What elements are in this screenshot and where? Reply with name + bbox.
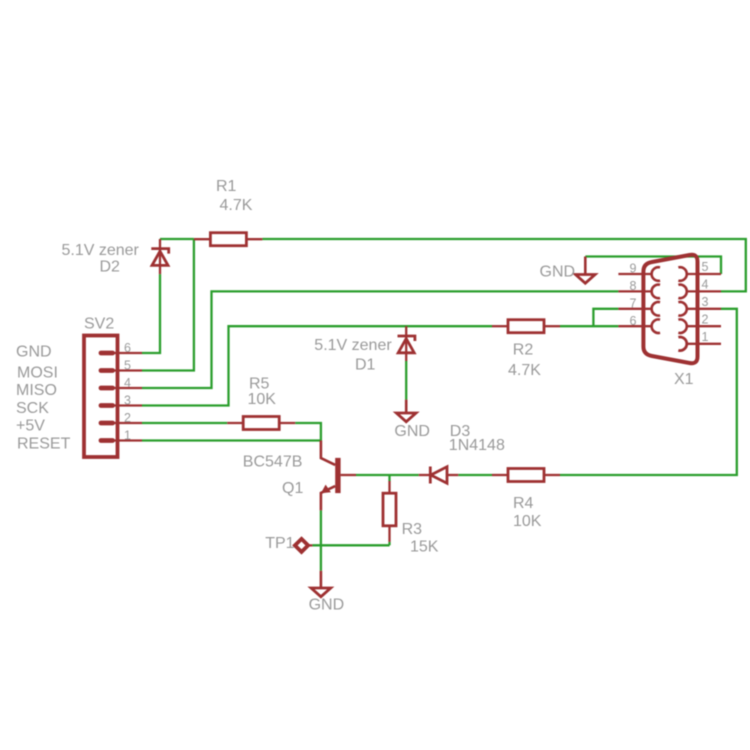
wire R3 top stub: [388, 475, 390, 481]
X1 pin 3: [678, 302, 721, 316]
diode D2 (5.1V zener): [151, 239, 168, 274]
svg-text:GND: GND: [394, 423, 430, 440]
svg-text:1N4148: 1N4148: [449, 437, 505, 454]
wire +5V: SV2 pin 2 to R5: [142, 422, 227, 424]
X1 pin 1: [678, 337, 721, 351]
wire R2 right to X1 pin 6: [560, 325, 618, 327]
svg-text:15K: 15K: [410, 539, 439, 556]
wire RESET: SV2 pin 1 to Q1 collector node: [142, 439, 321, 441]
wire D1 anode to GND: [405, 361, 407, 400]
svg-text:4: 4: [124, 376, 131, 390]
svg-text:5.1V zener: 5.1V zener: [62, 242, 140, 259]
ground G2 (below D1): [396, 400, 416, 422]
wire MOSI vertical from node to SV2 pin 5: [142, 239, 194, 371]
svg-text:SV2: SV2: [84, 316, 114, 333]
ground G1 (near X1): [576, 257, 596, 284]
SV2 pin 2: [100, 422, 142, 424]
resistor R3 (vertical): [383, 481, 396, 542]
wire net MOSI/R1 top: zener D2 top to R1: [160, 238, 194, 240]
wire D3 to R4: [458, 474, 492, 476]
svg-text:X1: X1: [674, 371, 694, 388]
X1 pin 8: [618, 285, 660, 299]
svg-text:5: 5: [124, 359, 131, 373]
wire R5 right down to RESET node: [295, 423, 321, 441]
svg-text:6: 6: [630, 314, 637, 328]
svg-text:R5: R5: [249, 376, 270, 393]
svg-text:7: 7: [630, 297, 637, 311]
X1 pin 6: [618, 319, 660, 333]
svg-text:8: 8: [630, 279, 637, 293]
wire branch to X1 pin 7: [593, 309, 618, 326]
svg-text:9: 9: [630, 262, 637, 276]
diode D3 (1N4148): [419, 467, 459, 484]
resistor R5: [227, 417, 295, 430]
SV2 pin 6: [100, 352, 142, 354]
X1 pin 2: [678, 319, 721, 333]
svg-text:1: 1: [124, 428, 131, 442]
svg-text:GND: GND: [540, 264, 576, 281]
svg-text:GND: GND: [16, 344, 52, 361]
svg-text:2: 2: [702, 313, 709, 327]
svg-text:R4: R4: [513, 495, 534, 512]
resistor R4: [492, 469, 560, 482]
SV2 pin 5: [100, 369, 142, 371]
svg-text:+5V: +5V: [16, 418, 45, 435]
wire base net: Q1 base to D3: [356, 474, 419, 476]
SV2 pin 4: [100, 387, 142, 389]
svg-text:R2: R2: [513, 342, 534, 359]
X1 pin 7: [618, 302, 660, 316]
svg-text:5: 5: [702, 260, 709, 274]
svg-text:4.7K: 4.7K: [220, 197, 253, 214]
wire GND: SV2 pin 6 to D2 anode: [142, 274, 160, 353]
resistor R2: [492, 320, 560, 333]
connector SV2 outline: [84, 336, 118, 458]
wire SCK: SV2 pin 3 up and right to R2/D1, on to X1 pin 6: [142, 326, 492, 405]
SV2 pin 1: [100, 439, 142, 441]
resistor R1: [194, 233, 262, 246]
svg-text:3: 3: [124, 394, 131, 408]
transistor Q1: [321, 441, 356, 511]
wire MISO: SV2 pin 4 to X1 pin 8: [142, 291, 618, 388]
svg-text:TP1: TP1: [265, 535, 294, 552]
svg-text:MOSI: MOSI: [17, 365, 58, 382]
wire Q1 emitter down to GND: [320, 510, 322, 570]
X1 pin 9: [618, 267, 660, 281]
diode D1 (5.1V zener): [398, 326, 415, 361]
SV2 pin 3: [100, 404, 142, 406]
ground G3 (below Q1): [311, 571, 331, 597]
test point TP1: [295, 539, 313, 552]
wire R3 bottom stub: [388, 542, 390, 545]
svg-text:RESET: RESET: [17, 436, 71, 453]
svg-text:BC547B: BC547B: [243, 454, 303, 471]
svg-text:D2: D2: [100, 259, 121, 276]
svg-text:2: 2: [124, 411, 131, 425]
svg-text:R3: R3: [402, 521, 423, 538]
svg-text:MISO: MISO: [16, 382, 57, 399]
svg-text:1: 1: [702, 330, 709, 344]
svg-text:4.7K: 4.7K: [508, 362, 541, 379]
svg-text:4: 4: [702, 278, 709, 292]
svg-text:6: 6: [124, 341, 131, 355]
svg-text:10K: 10K: [513, 513, 542, 530]
X1 pin 5: [678, 267, 721, 281]
wire R1 right to top-right corner down to X1 pin 4: [262, 239, 745, 291]
svg-text:Q1: Q1: [282, 480, 303, 497]
svg-text:R1: R1: [216, 178, 237, 195]
svg-text:SCK: SCK: [16, 400, 49, 417]
wire TP1 to R3 bottom: [312, 544, 389, 546]
svg-text:GND: GND: [309, 597, 345, 614]
wire X1 pin 5 to GND symbol: [585, 257, 721, 275]
X1 pin 4: [678, 285, 721, 299]
svg-text:D1: D1: [355, 357, 376, 374]
svg-text:5.1V zener: 5.1V zener: [314, 337, 392, 354]
wire R4 right up to X1 pin 3: [560, 309, 737, 475]
svg-text:10K: 10K: [248, 391, 277, 408]
svg-text:3: 3: [702, 295, 709, 309]
connector X1 outline: [643, 255, 697, 363]
